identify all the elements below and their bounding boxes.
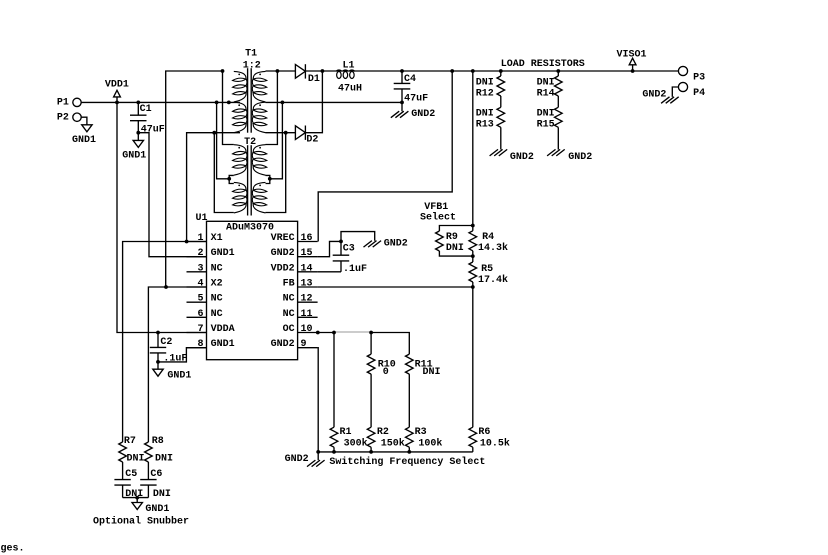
wire pin 15 GND2 to C3 — [318, 241, 341, 256]
svg-text:6: 6 — [198, 309, 204, 320]
svg-text:R7: R7 — [124, 436, 136, 447]
wire T2 left center tap jog — [229, 175, 234, 183]
node secondary center tap on GND2 rail — [281, 101, 285, 105]
inductor L1 — [336, 60, 362, 94]
svg-text:2: 2 — [198, 248, 204, 259]
svg-text:R12: R12 — [476, 89, 494, 100]
svg-text:C1: C1 — [140, 104, 152, 115]
svg-text:GND2: GND2 — [642, 89, 666, 100]
wire D2 cathode up to output — [305, 71, 322, 133]
svg-text:DNI: DNI — [476, 108, 494, 119]
capacitor C2 .1uF — [150, 333, 188, 365]
svg-text:P1: P1 — [57, 98, 69, 109]
ground GND1 at snubber — [132, 498, 169, 515]
svg-text:R6: R6 — [478, 427, 490, 438]
svg-text:GND2: GND2 — [271, 339, 295, 350]
svg-text:NC: NC — [283, 309, 295, 320]
wire T1 secondary top to D1 — [266, 70, 296, 72]
svg-text:NC: NC — [211, 263, 223, 274]
node R10 top junction — [369, 331, 373, 335]
capacitor C4 — [394, 71, 428, 104]
wire OC grey segment — [334, 331, 371, 333]
svg-text:GND2: GND2 — [510, 152, 534, 163]
ground GND1 at C2 — [153, 362, 192, 382]
svg-text:14.3k: 14.3k — [478, 242, 508, 254]
pin 10 OC — [283, 324, 318, 335]
pin 4 X2 — [187, 279, 223, 290]
svg-text:R2: R2 — [377, 427, 389, 438]
pin 7 VDDA — [187, 324, 235, 335]
node D1/D2 cathode junction — [321, 69, 325, 73]
wire pin 14 VDD2 to C3 bottom — [318, 271, 341, 273]
wire pin 4 X2 to R8 riser — [148, 287, 206, 442]
svg-text:3: 3 — [198, 263, 204, 274]
power symbol VDD1 — [105, 79, 129, 102]
wire D2 anode to T2 secondary bottom — [266, 133, 286, 213]
resistor R2 150k — [367, 374, 404, 452]
svg-text:DNI: DNI — [537, 77, 555, 88]
wire pin 13 FB — [318, 286, 473, 288]
label VFB1 Select — [420, 202, 456, 224]
node rail R2 junction — [369, 450, 373, 454]
svg-text:X2: X2 — [211, 279, 223, 290]
svg-text:OC: OC — [283, 324, 295, 335]
svg-text:R14: R14 — [537, 89, 555, 100]
pin 9 GND2 — [271, 339, 318, 350]
svg-text:L1: L1 — [343, 60, 355, 71]
pin 13 FB — [283, 279, 318, 290]
svg-text:GND1: GND1 — [122, 150, 146, 161]
wire VDD1 riser to pin 7 — [117, 102, 207, 332]
svg-text:R13: R13 — [476, 120, 494, 131]
node T2 right tap junction — [268, 177, 272, 181]
svg-text:DNI: DNI — [476, 77, 494, 88]
svg-text:11: 11 — [301, 309, 313, 320]
node R12 top junction — [499, 69, 503, 73]
transformer T1 — [232, 49, 267, 133]
ground GND2 at P4 — [642, 89, 678, 103]
svg-text:13: 13 — [301, 279, 313, 290]
wire VDD1 rail from P1 to T1 primary center tap — [81, 101, 240, 103]
ground GND1 at C1 — [122, 133, 146, 162]
wire pin 1 X1 to R7 riser — [123, 242, 207, 443]
wire bottom GND2 rail — [318, 451, 473, 453]
wire snubber ground tie — [123, 497, 149, 499]
svg-text:12: 12 — [301, 294, 313, 305]
resistor R11 DNI — [406, 354, 441, 378]
svg-text:NC: NC — [283, 294, 295, 305]
pin 15 GND2 — [271, 248, 318, 259]
node R14 top junction — [556, 69, 560, 73]
svg-text:9: 9 — [301, 339, 307, 350]
svg-text:R1: R1 — [340, 427, 352, 438]
ground GND2 at rail — [285, 452, 325, 467]
wire T2 secondary top riser — [266, 71, 278, 145]
svg-text:0: 0 — [383, 367, 389, 378]
node VFB tap junction — [471, 69, 475, 73]
pin 6 NC — [187, 309, 223, 320]
node R1 top junction — [332, 331, 336, 335]
connector P2 — [57, 113, 81, 124]
svg-text:16: 16 — [301, 233, 313, 244]
svg-text:GND1: GND1 — [211, 248, 235, 259]
node D2 anode junction — [284, 131, 288, 135]
svg-text:GND2: GND2 — [411, 109, 435, 120]
node rail GND2 junction — [316, 450, 320, 454]
svg-text:C3: C3 — [343, 244, 355, 255]
node FB junction — [471, 285, 475, 289]
svg-text:C6: C6 — [150, 469, 162, 480]
capacitor C3 .1uF — [333, 241, 367, 275]
svg-text:P4: P4 — [693, 88, 705, 99]
resistor R8 DNI — [145, 436, 173, 480]
resistor R12 DNI — [476, 71, 505, 100]
wire T1 top-left dot down to T2 top-left — [223, 71, 234, 145]
node C2 bottom junction — [156, 360, 160, 364]
pin 5 NC — [187, 294, 223, 305]
diode D2 — [295, 126, 318, 146]
svg-text:NC: NC — [211, 294, 223, 305]
node C1 bottom junction — [136, 131, 140, 135]
node C2 top junction — [156, 331, 160, 335]
svg-text:P2: P2 — [57, 113, 69, 124]
wire VREC loop to pin 16 — [318, 71, 452, 242]
wire C1 bottom to pin2 GND1 — [138, 133, 206, 257]
node T1 bottom rail junction — [212, 131, 216, 135]
wire pin 10 OC — [318, 332, 334, 334]
wire pin 8 GND1 to C2 bottom — [158, 348, 207, 362]
wire T1 top to X2 riser — [166, 71, 223, 287]
wire T1 secondary bottom to D2 — [266, 132, 296, 134]
svg-text:.1uF: .1uF — [343, 264, 367, 275]
resistor R14 DNI — [537, 71, 563, 100]
svg-text:Optional Snubber: Optional Snubber — [93, 516, 189, 528]
svg-text:C5: C5 — [125, 469, 137, 480]
pin 16 VREC — [271, 233, 318, 244]
svg-text:VREC: VREC — [271, 233, 295, 244]
svg-text:GND1: GND1 — [145, 504, 169, 515]
node C4 bottom junction — [400, 101, 404, 105]
svg-text:ges.: ges. — [1, 544, 25, 555]
node C4 top junction — [400, 69, 404, 73]
node T1 top-left junction — [221, 69, 225, 73]
wire T2 left center tap riser — [217, 102, 230, 178]
pin 3 NC — [187, 263, 223, 274]
ground GND2 at R13 — [490, 149, 534, 162]
svg-text:P3: P3 — [693, 72, 705, 83]
svg-text:.1uF: .1uF — [163, 354, 187, 365]
svg-text:GND2: GND2 — [568, 152, 592, 163]
svg-text:Select: Select — [420, 211, 456, 223]
resistor R9 DNI — [436, 226, 473, 257]
node rail R1 junction — [332, 450, 336, 454]
wire T1 bottom rail to X1 — [187, 133, 240, 242]
svg-text:7: 7 — [198, 324, 204, 335]
wire pin 9 GND2 drop — [317, 348, 320, 452]
ground GND2 at C3 — [341, 232, 408, 250]
wire T2 right tap to GND2 rail — [270, 102, 283, 178]
svg-text:NC: NC — [211, 309, 223, 320]
ground GND2 at C4 — [391, 102, 436, 120]
power symbol VISO1 — [617, 49, 647, 71]
svg-text:47uF: 47uF — [141, 124, 165, 135]
resistor R5 17.4k — [469, 256, 508, 287]
capacitor C5 DNI — [114, 469, 143, 500]
resistor R10 0 — [367, 333, 396, 379]
node rail R3 junction — [407, 450, 411, 454]
svg-text:Switching Frequency Select: Switching Frequency Select — [329, 456, 485, 468]
svg-text:D1: D1 — [308, 74, 320, 85]
svg-text:8: 8 — [198, 339, 204, 350]
node VREC tap junction — [450, 69, 454, 73]
resistor R1 300k — [330, 333, 367, 452]
svg-text:GND2: GND2 — [384, 239, 408, 250]
connector P3 — [678, 66, 705, 83]
svg-text:D2: D2 — [306, 134, 318, 145]
svg-text:DNI: DNI — [423, 367, 441, 378]
capacitor C1 — [130, 102, 165, 135]
svg-text:4: 4 — [198, 279, 204, 290]
svg-text:DNI: DNI — [127, 453, 145, 464]
pin 11 NC — [283, 309, 318, 320]
node X1 junction — [185, 240, 189, 244]
svg-text:T2: T2 — [244, 137, 256, 148]
wire D1 cathode to C4 — [305, 70, 402, 72]
connector P4 — [678, 82, 705, 98]
svg-text:300k: 300k — [344, 437, 368, 449]
pin 14 VDD2 — [271, 263, 318, 274]
connector P1 — [57, 98, 81, 109]
resistor R3 100k — [406, 374, 443, 452]
svg-text:DNI: DNI — [537, 108, 555, 119]
svg-text:14: 14 — [301, 263, 313, 274]
resistor R13 DNI — [476, 96, 505, 150]
svg-text:VDD1: VDD1 — [105, 79, 129, 90]
resistor R15 DNI — [537, 96, 563, 150]
wire P4 to GND2 — [672, 87, 678, 97]
svg-text:R3: R3 — [415, 427, 427, 438]
svg-text:GND1: GND1 — [167, 371, 191, 382]
node T2 left tap junction — [227, 177, 231, 181]
svg-text:R15: R15 — [537, 120, 555, 131]
wire VFB divider riser — [472, 71, 474, 226]
svg-text:C4: C4 — [404, 74, 416, 85]
svg-text:47uF: 47uF — [404, 93, 428, 104]
svg-text:DNI: DNI — [153, 489, 171, 500]
svg-text:VISO1: VISO1 — [617, 49, 647, 60]
svg-text:C2: C2 — [160, 337, 172, 348]
ground GND2 at R15 — [547, 149, 592, 162]
svg-text:15: 15 — [301, 248, 313, 259]
wire T2 right center tap jog — [266, 175, 270, 183]
svg-text:150k: 150k — [381, 437, 405, 449]
node VDD1 junction — [115, 101, 119, 105]
svg-text:GND1: GND1 — [211, 339, 235, 350]
wire OC to R11 — [371, 333, 409, 355]
resistor R6 10.5k — [469, 287, 510, 452]
wire VISO1 output rail to P3 — [402, 70, 678, 72]
ground GND1 at P2 — [72, 125, 96, 146]
node VDD1 rail junction right — [227, 101, 231, 105]
svg-text:47uH: 47uH — [338, 83, 362, 94]
svg-text:VDD2: VDD2 — [271, 263, 295, 274]
svg-text:100k: 100k — [418, 437, 442, 449]
node T1 secondary top junction — [276, 69, 280, 73]
svg-text:X1: X1 — [211, 233, 223, 244]
node snubber ground junction — [135, 496, 139, 500]
svg-text:U1: U1 — [196, 213, 208, 224]
resistor R7 DNI — [119, 436, 145, 480]
svg-text:10.5k: 10.5k — [480, 437, 510, 449]
wire secondary center tap rail to C4 — [266, 101, 403, 103]
svg-text:VFB1: VFB1 — [424, 202, 448, 213]
pin 8 GND1 — [187, 339, 235, 350]
svg-text:ADuM3070: ADuM3070 — [226, 223, 274, 234]
node C1 top junction — [136, 101, 140, 105]
svg-text:R4: R4 — [482, 232, 494, 243]
svg-text:R5: R5 — [481, 264, 493, 275]
node VISO1 junction — [631, 69, 635, 73]
svg-text:GND2: GND2 — [285, 454, 309, 465]
pin 12 NC — [283, 294, 318, 305]
wire P2 to GND1 — [81, 117, 87, 125]
svg-text:LOAD RESISTORS: LOAD RESISTORS — [501, 59, 585, 70]
svg-text:VDDA: VDDA — [211, 324, 235, 335]
IC U1 ADuM3070 — [196, 213, 298, 360]
node R4 top junction — [471, 224, 475, 228]
svg-text:DNI: DNI — [446, 243, 464, 254]
diode D1 — [295, 64, 320, 85]
pin 2 GND1 — [187, 248, 235, 259]
svg-text:DNI: DNI — [155, 453, 173, 464]
pin 1 X1 — [187, 233, 223, 244]
svg-text:R9: R9 — [446, 232, 458, 243]
svg-text:10: 10 — [301, 324, 313, 335]
svg-text:GND1: GND1 — [72, 135, 96, 146]
svg-text:1: 1 — [198, 233, 204, 244]
svg-text:5: 5 — [198, 294, 204, 305]
svg-text:FB: FB — [283, 279, 295, 290]
node X2 junction — [164, 285, 168, 289]
node C3 top junction — [339, 240, 343, 244]
node OC pin junction — [316, 331, 320, 335]
svg-text:GND2: GND2 — [271, 248, 295, 259]
wire T1 bottom rail to T2 bottom-left — [214, 133, 234, 213]
svg-text:T1: T1 — [245, 49, 257, 60]
svg-text:17.4k: 17.4k — [478, 274, 508, 286]
transformer T2 — [232, 137, 267, 215]
resistor R4 14.3k — [469, 226, 508, 257]
svg-text:R8: R8 — [152, 436, 164, 447]
capacitor C6 DNI — [140, 469, 171, 500]
node VDD1 rail junction left — [215, 101, 219, 105]
node R4 bottom junction — [471, 254, 475, 258]
